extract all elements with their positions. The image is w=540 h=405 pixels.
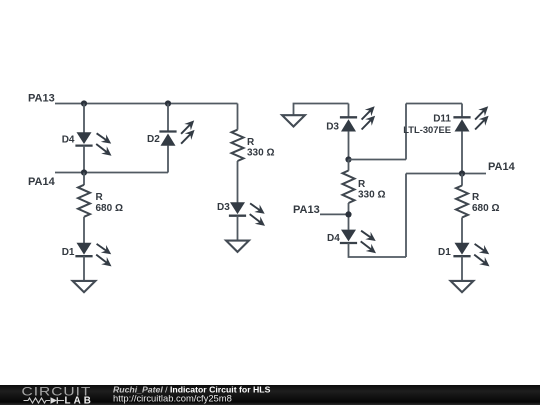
wire D3 cathode to ground (left) <box>237 216 239 241</box>
wire into R3 330ohm (right) <box>348 160 350 171</box>
svg-text:D4: D4 <box>327 233 340 244</box>
logo text CIRCUIT <box>22 384 92 398</box>
wire R2 to D3 anode (left) <box>237 161 239 203</box>
wire link column up to PA14 rail (right) <box>405 174 407 258</box>
svg-text:R: R <box>472 192 480 203</box>
wire D1 cathode to ground (right) <box>461 256 463 281</box>
resistor R2 330ohm <box>232 130 244 161</box>
wire PA14 horizontal rail (left circuit) <box>55 172 168 174</box>
ground top-left (right circuit) <box>282 115 305 126</box>
LED D1 (right circuit) <box>453 243 489 267</box>
svg-text:PA13: PA13 <box>28 93 55 105</box>
svg-text:330 Ω: 330 Ω <box>247 148 274 159</box>
wire R3 to PA13 node (right) <box>348 203 350 230</box>
LED D2 <box>159 120 194 145</box>
LED D4 (right circuit) <box>340 230 376 254</box>
ground below D3 (left) <box>226 241 249 252</box>
wire D1 cathode to ground <box>83 256 85 281</box>
ground below D1 (right) <box>451 281 474 292</box>
svg-text:R: R <box>96 192 104 203</box>
wire PA13 rail down to D2 cathode <box>167 104 169 132</box>
junction at PA13/D4 <box>81 100 87 106</box>
svg-text:LTL-307EE: LTL-307EE <box>403 124 451 135</box>
LED D1 (left circuit) <box>75 243 111 267</box>
svg-text:D1: D1 <box>62 247 75 258</box>
svg-text:http://circuitlab.com/cfy25m8: http://circuitlab.com/cfy25m8 <box>113 392 232 403</box>
wire PA13 stub (right circuit) <box>320 213 349 215</box>
svg-text:D3: D3 <box>326 122 339 133</box>
wire down to D3 cathode bar (right) <box>348 104 350 118</box>
wire D2 anode down to PA14 rail <box>167 146 169 173</box>
wire PA13 rail down into R2 <box>237 104 239 130</box>
svg-text:330 Ω: 330 Ω <box>358 190 385 201</box>
LED D4 (left circuit) <box>75 132 111 156</box>
wire top ground to D3 (right circuit) <box>294 104 349 116</box>
junction D3/R3 node <box>345 156 351 162</box>
svg-text:PA14: PA14 <box>28 176 56 188</box>
junction PA14/D11/R4 <box>459 170 465 176</box>
LED D3 (left circuit) <box>229 202 265 226</box>
junction PA13/R3/D4 (right) <box>345 211 351 217</box>
svg-text:D1: D1 <box>438 247 451 258</box>
wire PA14 rail (right circuit) <box>406 173 486 175</box>
svg-text:680 Ω: 680 Ω <box>96 203 123 214</box>
svg-text:PA13: PA13 <box>293 204 320 216</box>
svg-text:LAB: LAB <box>65 395 94 405</box>
svg-text:R: R <box>358 179 366 190</box>
wire down to D11 cathode bar <box>461 104 463 118</box>
junction at PA13/D2 <box>165 100 171 106</box>
svg-text:R: R <box>247 137 255 148</box>
resistor R1 680ohm <box>78 185 90 217</box>
wire PA14 rail into R1 <box>83 173 85 186</box>
svg-text:PA14: PA14 <box>488 161 516 173</box>
wire D3 anode down to node (right) <box>348 131 350 159</box>
wire D11 anode down to PA14 node <box>461 131 463 173</box>
wire link column up to top rail <box>405 104 407 160</box>
resistor R3 330ohm (right) <box>343 171 355 204</box>
junction at PA14/D4 column <box>81 169 87 175</box>
logo wire with resistor <box>24 398 51 403</box>
wire R1 to D1 anode <box>83 217 85 243</box>
wire PA13 horizontal rail (left circuit) <box>55 103 238 105</box>
footer black bar <box>0 385 540 405</box>
svg-text:D4: D4 <box>62 134 75 145</box>
ground below D1 (left) <box>73 281 96 292</box>
wire R4 to D1 anode (right) <box>461 218 463 244</box>
svg-text:D11: D11 <box>433 114 451 125</box>
wire node across to link column <box>349 159 407 161</box>
resistor R4 680ohm (right) <box>456 186 468 218</box>
wire PA14 node into R4 <box>461 174 463 186</box>
wire D4 cathode down and across to link column <box>349 243 407 257</box>
LED D11 LTL-307EE <box>453 106 488 131</box>
svg-text:D2: D2 <box>147 134 160 145</box>
svg-text:D3: D3 <box>217 202 230 213</box>
svg-text:680 Ω: 680 Ω <box>472 203 499 214</box>
wire D4 cathode down to PA14 rail <box>83 146 85 173</box>
wire PA13 rail down to D4 anode <box>83 104 85 133</box>
wire top rail to D11 <box>406 103 462 105</box>
logo diode symbol <box>51 397 58 403</box>
LED D3 (right circuit) <box>340 106 375 131</box>
